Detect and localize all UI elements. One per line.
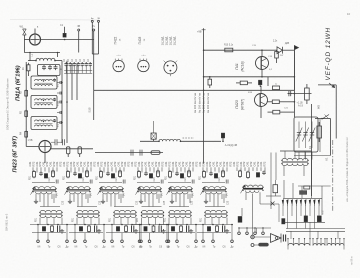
capacitor C41 blob — [317, 216, 321, 222]
stage 1 resistor Ra — [33, 170, 35, 171]
RF stage 4 leads — [137, 167, 139, 171]
RF stage 3 leads — [99, 167, 101, 171]
jack J2 — [251, 244, 254, 247]
resistor R15 — [272, 100, 279, 104]
IF stage 2 electrolytic — [79, 227, 82, 232]
transformer Tr1 — [33, 187, 56, 189]
wire collector line — [288, 93, 312, 95]
resistor R11 — [208, 79, 212, 85]
wire output top — [280, 150, 312, 152]
capacitor C40 blob — [304, 216, 308, 222]
transformer Tr22 — [77, 210, 99, 212]
jack J1 — [251, 235, 255, 239]
wire bottom bus 1 — [286, 228, 345, 230]
resistor R34 — [300, 191, 307, 195]
stage 4 resistor Ra — [138, 170, 140, 171]
pin row P1-P9 — [282, 199, 284, 206]
box top edge — [318, 84, 336, 86]
resistor R33 — [273, 185, 278, 193]
stage 4 wire — [137, 182, 160, 184]
stage 4 down leads — [140, 194, 142, 200]
IF stage 3 terminals — [111, 225, 113, 241]
stage 2 capacitor Cb — [74, 172, 76, 173]
wire left column bus — [25, 62, 27, 141]
resistor R17 — [317, 126, 322, 138]
coil bank L10 — [288, 244, 310, 246]
IF stage 5 top wire — [169, 206, 189, 208]
stage 5 inter-row leads — [175, 194, 177, 202]
stage 1 wire — [32, 182, 55, 184]
driver long lead — [252, 194, 254, 229]
capacitor C1 blob — [63, 33, 66, 37]
X mark — [271, 202, 275, 206]
wire main horizontal bus — [94, 89, 295, 91]
stage 6 electrolytic Ca — [214, 174, 217, 179]
jack Gn2 lead — [93, 31, 95, 90]
speaker magnet — [259, 243, 269, 246]
IF stage 2 ground — [98, 229, 100, 231]
wire output risers — [283, 166, 285, 176]
wire +9V rail — [203, 28, 205, 163]
wire right riser 2 — [311, 104, 313, 151]
wire tuner down leads — [298, 152, 300, 160]
wire bottom link — [246, 231, 286, 233]
switch S1 — [315, 118, 331, 120]
diode D1 — [277, 47, 283, 54]
coil bank connectors — [309, 222, 311, 239]
IF stage 1 top wire — [40, 206, 60, 208]
IF stage 3 top wire — [114, 206, 134, 208]
stage 2 inter-row leads — [73, 194, 75, 202]
IF stage 5 resistor — [180, 225, 182, 226]
connector bus wire — [283, 197, 322, 199]
resistor R12 — [240, 81, 247, 85]
stage 6 capacitor Cb — [210, 172, 212, 173]
resistor R10 — [225, 48, 233, 52]
IF stage 3 resistor — [125, 225, 127, 226]
stage 1 down leads — [35, 194, 37, 200]
wire lower link — [283, 221, 325, 223]
IF stage 4 electrolytic — [144, 227, 147, 232]
RF stage 6 leads — [202, 167, 204, 171]
output transformer Tr8 — [282, 158, 308, 160]
stage 6 resistor Rb — [222, 170, 224, 171]
driver resistor R31 — [247, 171, 249, 172]
resistor R35 — [304, 186, 310, 189]
stage 5 wire — [168, 182, 191, 184]
RF stage 2 leads — [66, 167, 68, 171]
meter G1 circle-cross — [30, 34, 41, 45]
stage 2 resistor Ra — [67, 170, 69, 171]
stage 3 capacitor Cc — [122, 180, 124, 184]
stage 2 wire — [66, 182, 89, 184]
transformer Tr2 — [67, 187, 90, 189]
driver transformer Tr7 — [243, 185, 263, 187]
resistor R20 — [151, 151, 160, 155]
IF stage 4 top wire — [142, 206, 162, 208]
IF stage 3 bottom wire — [104, 224, 142, 226]
driver stage leads — [236, 167, 238, 171]
stage 4 inter-row leads — [144, 194, 146, 202]
inductor L2 — [159, 139, 180, 141]
wire upper link — [298, 185, 331, 187]
wire switch drop — [319, 119, 321, 152]
IF stage 2 lower bus — [69, 231, 103, 233]
IF stage 6 ground — [226, 229, 228, 231]
wire x322 drop — [321, 186, 323, 215]
stage 1 capacitor Cb — [40, 172, 42, 173]
IF stage 2 resistor — [88, 225, 90, 226]
IF stage 2 cap pair — [94, 226, 96, 233]
stage 5 ground — [171, 200, 173, 202]
wire right riser — [293, 50, 295, 117]
IF stage 4 bottom wire — [132, 224, 170, 226]
wire stub — [267, 77, 269, 86]
IF stage 2 top wire — [77, 206, 97, 208]
transformer Tr23 — [114, 210, 136, 212]
capacitor C31 — [130, 150, 132, 156]
wire tuner bus — [294, 155, 331, 157]
IF stage 5 lower bus — [161, 231, 195, 233]
capacitor C33 — [54, 139, 56, 145]
IF stage 1 bottom wire — [30, 224, 68, 226]
wire IF right risers — [61, 61, 63, 143]
stage 5 capacitor Cc — [191, 180, 193, 184]
dashed tuning link — [183, 137, 195, 139]
wire bottom bus 2 — [286, 230, 345, 232]
coupling caps IF — [57, 82, 60, 84]
IF stage 4 cap pair — [158, 226, 160, 233]
speaker Gr1 — [271, 234, 282, 243]
stage 1 ground — [35, 200, 37, 202]
scan fold line — [10, 19, 98, 21]
stage 5 down leads — [171, 194, 173, 200]
coil bank L11 — [313, 244, 325, 246]
stage 2 capacitor Cc — [89, 180, 91, 184]
driver terminals — [238, 228, 240, 232]
stage 6 down leads — [205, 194, 207, 200]
stage 2 down leads — [69, 194, 71, 200]
capacitor C30 blob — [221, 133, 225, 138]
wire middle return — [95, 152, 163, 154]
jack Gn1 lead — [78, 31, 80, 53]
IF stage 6 top wire — [205, 206, 225, 208]
IF stage 2 terminals — [74, 225, 76, 241]
transistor T1 — [113, 60, 124, 71]
stage 3 capacitor Cb — [107, 172, 109, 173]
tuning capacitor box — [294, 117, 318, 152]
IF stage 6 cap pair — [222, 226, 224, 233]
driver resistor R30 — [239, 170, 241, 171]
IF stage 3 electrolytic — [116, 227, 119, 232]
stage 6 wire — [202, 182, 225, 184]
wire osc line — [140, 140, 159, 142]
IF stage 6 resistor — [216, 225, 218, 226]
stage 1 capacitor Cc — [55, 180, 57, 184]
resistor R22 — [78, 147, 81, 154]
IF stage 1 lower bus — [32, 231, 66, 233]
IF stage 6 bottom wire — [195, 224, 233, 226]
driver right link — [260, 203, 279, 205]
capacitor C42 blob — [282, 219, 285, 225]
resistor R4 — [25, 130, 27, 131]
IF stage 3 ground — [135, 229, 137, 231]
stage 3 inter-row leads — [106, 194, 108, 202]
transformer Tr24 — [142, 210, 164, 212]
wire emitter line T4 — [240, 76, 294, 78]
resistor R2 — [25, 89, 27, 90]
meter G2 circle-cross — [39, 141, 51, 153]
stage 2 ground — [69, 200, 71, 202]
transformer Tr4 — [138, 187, 161, 189]
stage 5 capacitor Cb — [176, 172, 178, 173]
IF stage 6 electrolytic — [207, 227, 210, 232]
speaker cap — [282, 235, 284, 242]
capacitor C20 blob — [258, 80, 262, 85]
wire G2 right — [51, 148, 93, 150]
IF box 3 — [31, 117, 57, 130]
IF stage 1 terminals — [37, 225, 39, 241]
stage 3 down leads — [102, 194, 104, 200]
wire bias line — [204, 49, 277, 51]
coil bank ticks — [287, 239, 289, 246]
flag terminal — [294, 46, 298, 50]
transformer Tr25 — [169, 210, 191, 212]
transistor T5 — [255, 94, 268, 107]
resistor R21 — [67, 147, 70, 154]
resistor R3 — [25, 110, 27, 111]
dash-dot boundary — [332, 140, 334, 212]
speaker wires — [254, 236, 270, 238]
transformer Tr26 — [205, 210, 227, 212]
transformer Tr3 — [100, 187, 123, 189]
arrow mark — [329, 83, 335, 88]
driver electrolytic — [256, 173, 259, 178]
IF stage 1 ground — [61, 229, 63, 231]
transformer Tr6 — [203, 187, 226, 189]
capacitor C34 — [62, 139, 64, 145]
crystal Z1 — [153, 121, 155, 133]
RF stage 5 leads — [168, 167, 170, 171]
driver capacitor — [263, 171, 265, 172]
IF stage 1 electrolytic — [42, 227, 45, 232]
transistor T2 — [138, 60, 149, 71]
IF stage 1 resistor — [51, 225, 53, 226]
wire input top — [24, 52, 60, 54]
transformer Tr21 — [40, 210, 62, 212]
capacitor C32 — [139, 150, 141, 156]
stage 6 ground — [205, 200, 207, 202]
stage 6 capacitor Cc — [225, 180, 227, 184]
stage 5 electrolytic Ca — [180, 174, 183, 179]
IF stage 1 cap pair — [57, 226, 59, 233]
resistor R14 tall — [305, 88, 310, 100]
IF box 2 — [31, 95, 57, 108]
RF stage 1 leads — [32, 167, 34, 171]
stage 4 electrolytic Ca — [149, 174, 152, 179]
stage 2 resistor Rb — [86, 170, 88, 171]
wire G1 to right bus — [24, 39, 29, 41]
stage 3 resistor Rb — [119, 170, 121, 171]
IF stage 6 lower bus — [197, 231, 231, 233]
stage 5 resistor Rb — [188, 170, 190, 171]
stage 3 resistor Ra — [100, 170, 102, 171]
wire right drops — [270, 153, 272, 210]
wire stub down — [93, 90, 95, 120]
IF stage 5 bottom wire — [159, 224, 197, 226]
IF stage 3 lower bus — [106, 231, 140, 233]
stage 5 resistor Ra — [169, 170, 171, 171]
IF box 1 — [31, 76, 57, 89]
IF stage 6 terminals — [202, 225, 204, 241]
resistor R13 — [273, 86, 280, 90]
stage 3 wire — [99, 182, 122, 184]
stage 4 capacitor Cc — [160, 180, 162, 184]
transistor T4 — [256, 57, 269, 70]
IF stage 5 terminals — [166, 225, 168, 241]
stage 6 resistor Ra — [203, 170, 205, 171]
driver blob — [238, 216, 242, 222]
driver bottom wire — [239, 227, 271, 229]
wire switch riser — [330, 119, 332, 155]
stage 4 ground — [140, 200, 142, 202]
stage 1 electrolytic Ca — [44, 174, 47, 179]
stage 4 capacitor Cb — [145, 172, 147, 173]
stage 6 inter-row leads — [209, 194, 211, 202]
stage 3 ground — [102, 200, 104, 202]
wire G2 down — [44, 153, 46, 164]
stage 1 resistor Rb — [52, 170, 54, 171]
IF stage 5 ground — [190, 229, 192, 231]
antenna W1 — [23, 28, 27, 30]
IF stage 4 terminals — [139, 225, 141, 241]
tube V1 socket — [164, 61, 177, 74]
IF stage 4 lower bus — [134, 231, 168, 233]
IF stage 2 bottom wire — [67, 224, 105, 226]
resistor R16 — [273, 110, 280, 114]
transformer Tr5 — [169, 187, 192, 189]
IF stage 5 electrolytic — [171, 227, 174, 232]
coil bank L12 — [327, 243, 344, 245]
IF stage 3 cap pair — [131, 226, 133, 233]
IF stage 4 resistor — [153, 225, 155, 226]
IF stage 4 ground — [163, 229, 165, 231]
stage 1 inter-row leads — [39, 194, 41, 202]
IF stage 5 cap pair — [186, 226, 188, 233]
stage 4 resistor Rb — [157, 170, 159, 171]
resistor R19 — [275, 52, 279, 59]
connector feed wires — [283, 180, 285, 198]
stage 3 electrolytic Ca — [111, 174, 114, 179]
stage 2 electrolytic Ca — [78, 174, 81, 179]
